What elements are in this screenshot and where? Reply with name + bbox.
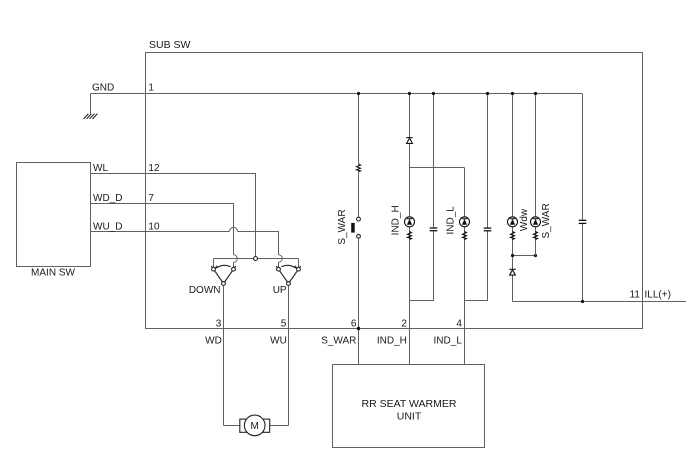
switch UP [276, 265, 301, 283]
svg-text:12: 12 [148, 163, 160, 174]
diode D1 [406, 138, 412, 144]
junction dot join left [511, 254, 514, 257]
LED Wdw [508, 217, 518, 227]
wire motor right lead [270, 425, 289, 427]
switch UP arrowhead [294, 265, 297, 268]
wire WD (pin 3) [223, 285, 225, 425]
MAIN SW box [17, 163, 91, 267]
svg-text:MAIN SW: MAIN SW [31, 267, 75, 278]
svg-text:RR SEAT WARMER: RR SEAT WARMER [362, 398, 457, 410]
svg-text:S_WAR: S_WAR [337, 209, 348, 244]
wire cap branch C3 [582, 94, 584, 302]
wire ILL bus [513, 301, 687, 303]
svg-text:4: 4 [456, 318, 462, 329]
svg-text:10: 10 [148, 222, 160, 233]
svg-text:IND_L: IND_L [434, 335, 463, 346]
diode D2 [509, 269, 515, 275]
wire Wdw column [512, 94, 514, 302]
svg-text:UP: UP [273, 285, 287, 296]
svg-text:2: 2 [401, 318, 407, 329]
switch DOWN arrowhead [215, 265, 218, 268]
svg-text:SUB SW: SUB SW [149, 39, 191, 51]
capacitor C3 [579, 220, 587, 223]
svg-text:M: M [251, 421, 259, 432]
SUB SW box [146, 53, 643, 329]
pushbutton S_WAR actuator [351, 223, 355, 233]
wire hop WD_D over switch bus [234, 255, 238, 263]
junction dot join right [534, 254, 537, 257]
svg-text:S_WAR: S_WAR [541, 203, 552, 238]
svg-text:3: 3 [216, 318, 222, 329]
wire cap branch C1 [410, 94, 434, 301]
junction dot top bus C2 [486, 92, 489, 95]
wire IND_H column [409, 94, 411, 365]
resistor IND_L [463, 232, 467, 240]
wire S_WAR column [358, 94, 360, 365]
wire motor left lead [224, 425, 240, 427]
LED S_WAR [531, 217, 541, 227]
svg-text:WU_D: WU_D [93, 222, 122, 233]
wire WL [91, 174, 256, 257]
LED IND_H [405, 217, 415, 227]
svg-text:DOWN: DOWN [189, 285, 221, 296]
RR SEAT WARMER UNIT box [333, 365, 485, 448]
svg-text:IND_H: IND_H [390, 205, 401, 235]
switch DOWN [211, 265, 236, 283]
svg-text:UNIT: UNIT [397, 411, 422, 423]
svg-text:ILL(+): ILL(+) [645, 290, 671, 301]
junction dot top bus S_WAR right [534, 92, 537, 95]
pushbutton S_WAR contacts [357, 217, 361, 221]
capacitor C1 [430, 228, 438, 231]
wire Wdw/S_WAR join [513, 255, 536, 257]
resistor S_WAR [357, 164, 361, 172]
wire IND_H to IND_L link [410, 167, 465, 169]
svg-text:WD_D: WD_D [93, 193, 122, 204]
resistor S_WAR right [534, 232, 538, 240]
resistor IND_H [408, 232, 412, 240]
svg-text:WD: WD [205, 335, 222, 346]
wire DOWN top-left drop [213, 259, 215, 268]
svg-text:WL: WL [93, 163, 108, 174]
svg-text:IND_L: IND_L [445, 206, 456, 235]
wire WU_D [91, 232, 279, 268]
wire hump WU_D over WD_D [229, 227, 237, 231]
switch UP contacts [277, 267, 281, 271]
junction dot top bus C1 [432, 92, 435, 95]
wire hop WU_D over switch bus [279, 255, 283, 263]
wire switch bus [214, 258, 299, 260]
node WL tap circle [254, 257, 258, 261]
svg-text:IND_H: IND_H [377, 335, 407, 346]
wire cap branch C2 [465, 94, 488, 301]
svg-text:5: 5 [281, 318, 287, 329]
svg-text:6: 6 [351, 318, 357, 329]
junction dot pin6 on border [357, 327, 360, 330]
svg-text:1: 1 [148, 83, 154, 94]
svg-text:7: 7 [148, 193, 154, 204]
svg-text:11: 11 [630, 290, 641, 301]
wire S_WAR right column [535, 94, 537, 256]
capacitor C2 [484, 228, 492, 231]
wire UP top-right drop [298, 259, 300, 268]
svg-text:Wdw: Wdw [519, 208, 530, 231]
resistor Wdw [511, 232, 515, 240]
switch DOWN contacts [212, 267, 216, 271]
wire IND_L column [464, 168, 466, 365]
svg-text:WU: WU [270, 335, 287, 346]
wire WU (pin 5) [288, 285, 290, 425]
svg-text:GND: GND [92, 83, 114, 94]
motor M [240, 419, 247, 432]
wire WD_D [91, 204, 234, 268]
junction dot top bus S_WAR [357, 92, 360, 95]
LED IND_L [460, 217, 470, 227]
junction dot top bus Wdw [511, 92, 514, 95]
wire GND bus (top horizontal) [91, 93, 583, 95]
wire ground stub [90, 94, 92, 114]
svg-text:S_WAR: S_WAR [321, 335, 356, 346]
ground [84, 114, 98, 119]
junction dot top bus IND_H [408, 92, 411, 95]
junction dot C3/ILL [581, 300, 584, 303]
